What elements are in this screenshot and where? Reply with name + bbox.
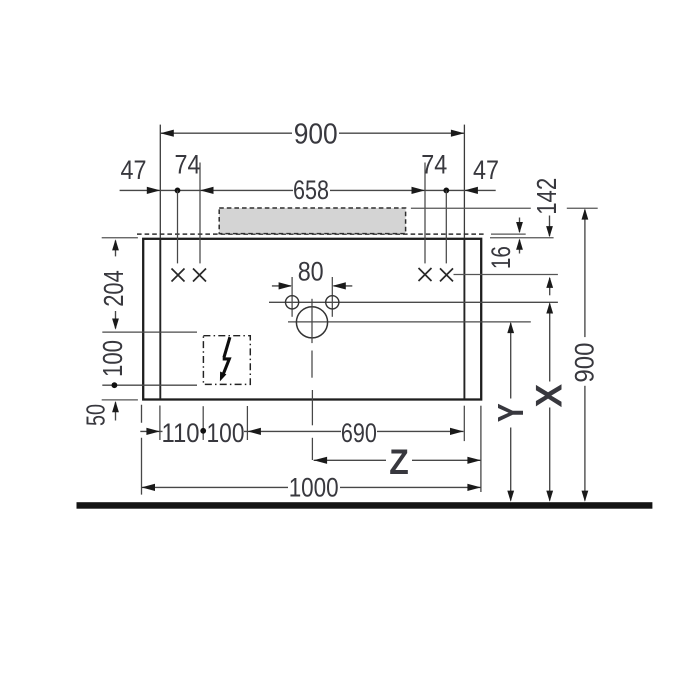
electrical box top reference line [102, 331, 197, 333]
fixing point dot right [443, 188, 449, 194]
electrical box bottom reference line [102, 384, 197, 386]
faucet hole centerline right [331, 277, 333, 317]
svg-text:Z: Z [389, 443, 409, 482]
arrow 47 left [147, 187, 161, 194]
dimension 142 arrow line [549, 216, 551, 237]
dimension 50 up arrow [115, 402, 117, 420]
leader line 658 left end to x mark [199, 163, 201, 264]
faucet hole circle right [326, 296, 339, 309]
svg-text:74: 74 [175, 150, 201, 180]
x mark 2 [193, 269, 206, 282]
arrow 658 right [412, 187, 426, 194]
dimension 16 arrows [519, 218, 521, 233]
dimension 1000 line [142, 486, 481, 488]
dimension 900 top line [160, 132, 464, 134]
dimension Y vertical line [510, 323, 512, 500]
faucet hole centerline left [291, 277, 293, 317]
x screw level extension line right [454, 274, 558, 276]
bottom right solid extension line [480, 406, 482, 492]
svg-text:900: 900 [294, 118, 338, 150]
svg-text:110: 110 [162, 418, 200, 448]
dimension chain line 47/74/658 [120, 189, 496, 191]
dimension Z line [314, 459, 481, 461]
leader line right dot to x mark [445, 190, 447, 263]
svg-text:100: 100 [207, 418, 245, 448]
leader line left dot to x mark [177, 190, 179, 263]
x mark 3 [419, 268, 432, 281]
arrow 900 left [160, 130, 174, 137]
svg-text:900: 900 [570, 343, 600, 383]
dot between 110 and 100 [200, 428, 206, 434]
x fixing marks [172, 268, 454, 282]
dimension 204 [115, 241, 117, 257]
tap platform gray rectangle [219, 208, 405, 234]
cabinet bottom left extension line [102, 399, 138, 401]
drain vertical centerline dashes [311, 299, 313, 460]
dimension line 110/100/690 [140, 430, 463, 432]
leader line 658 right end to x mark [424, 163, 426, 264]
arrow 47 right [464, 187, 478, 194]
svg-text:47: 47 [473, 155, 499, 185]
svg-text:142: 142 [531, 178, 562, 215]
svg-text:50: 50 [81, 404, 111, 426]
svg-text:16: 16 [486, 246, 516, 269]
svg-text:X: X [529, 384, 570, 408]
svg-text:Y: Y [490, 403, 531, 422]
svg-text:1000: 1000 [289, 472, 339, 502]
arrow 658 left [200, 187, 214, 194]
faucet hole circle left [286, 296, 299, 309]
svg-text:204: 204 [98, 270, 129, 307]
bottom left dashed extension line [141, 405, 143, 495]
washbasin bottom dashed line [137, 233, 486, 235]
floor line [77, 502, 653, 509]
x mark 4 [440, 268, 453, 281]
bottom extension line 110 left [159, 406, 161, 441]
16 dim top reference line [491, 233, 526, 235]
svg-text:100: 100 [97, 340, 128, 377]
lightning bolt symbol [223, 337, 230, 374]
svg-text:80: 80 [298, 257, 324, 287]
drain horizontal centerline [288, 321, 531, 323]
x mark 1 [172, 269, 185, 282]
bottom extension line dot position [202, 406, 204, 440]
bottom extension line 690 right [463, 406, 465, 441]
dimension X vertical line [549, 304, 551, 501]
svg-text:47: 47 [121, 155, 147, 185]
cabinet top right extension line [490, 237, 554, 239]
cabinet inner side line left / 900 extension line [159, 125, 161, 238]
vanity cabinet body outline [143, 239, 481, 400]
fixing point dot left [175, 188, 181, 194]
cabinet top left extension line [102, 237, 138, 239]
svg-text:690: 690 [341, 418, 377, 448]
drain circle [296, 307, 327, 338]
arrow 900 right [451, 130, 465, 137]
cabinet inner side line right / 900 extension line [463, 125, 465, 238]
reference dot on 385 line [112, 382, 118, 388]
rim level extension line [411, 207, 531, 209]
svg-text:658: 658 [293, 175, 329, 205]
faucet holes horizontal line [269, 301, 558, 303]
dimension 80 arrows [272, 285, 291, 287]
electrical connection box dash-dot [203, 336, 250, 385]
bottom extension line 100 right [246, 406, 248, 440]
small up arrow at screw level [549, 278, 551, 295]
dimension 900 right vertical line [584, 210, 586, 501]
